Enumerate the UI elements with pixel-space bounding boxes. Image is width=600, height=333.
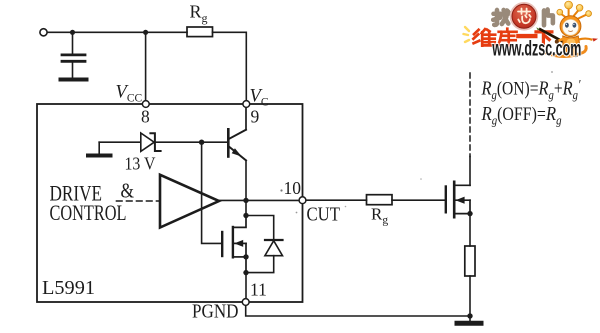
svg-text:Rg: Rg xyxy=(190,2,208,26)
wire to pin 11 xyxy=(245,273,247,298)
logo swoosh xyxy=(545,47,586,57)
logo mascot xyxy=(555,1,598,57)
wire gate drop xyxy=(202,142,221,243)
wire output to pin 10 xyxy=(219,199,298,201)
logo glow xyxy=(464,27,470,42)
node bottom junction xyxy=(467,313,472,318)
wire to diode branch xyxy=(245,200,247,215)
node base junction xyxy=(199,140,204,145)
svg-text:CONTROL: CONTROL xyxy=(50,200,127,225)
node M2 source junction xyxy=(467,211,472,216)
transistor Q1 npn xyxy=(228,108,246,160)
pin 8 xyxy=(142,101,149,108)
logo dzsc xyxy=(464,1,599,61)
resistor Rg top xyxy=(187,27,213,37)
wire resistor to rail xyxy=(469,276,471,316)
resistor R source xyxy=(465,246,475,276)
node source junction xyxy=(243,254,248,259)
wire Rg to Vc xyxy=(213,32,247,99)
logo magnifier xyxy=(511,3,537,29)
zener diode 13V xyxy=(141,133,161,151)
wire zener anode xyxy=(99,141,140,143)
svg-text:L5991: L5991 xyxy=(42,277,95,299)
svg-text:9: 9 xyxy=(251,107,260,127)
mosfet M2 power xyxy=(446,182,470,217)
svg-text:11: 11 xyxy=(250,280,267,300)
wire bottom rail xyxy=(246,306,470,316)
svg-text:Rg(OFF)=Rg: Rg(OFF)=Rg xyxy=(481,103,562,128)
wire zener to base xyxy=(155,141,227,143)
IC L5991 box xyxy=(37,104,303,302)
logo glyph pian xyxy=(544,10,553,26)
ground (capacitor) xyxy=(61,78,87,82)
wire drain dashed xyxy=(469,73,471,157)
pin 10 xyxy=(299,197,306,204)
svg-text:CUT: CUT xyxy=(307,204,341,226)
svg-text:Rg: Rg xyxy=(371,205,388,227)
wire cut to Rg xyxy=(307,199,367,201)
ground (zener) xyxy=(88,142,111,155)
pin 11 xyxy=(242,299,249,306)
svg-text:Rg(ON)=Rg+Rg′: Rg(ON)=Rg+Rg′ xyxy=(481,78,582,103)
node diode-bottom junction xyxy=(243,270,248,275)
svg-text:&: & xyxy=(121,179,135,203)
svg-text:PGND: PGND xyxy=(192,301,239,323)
wire dashed input xyxy=(117,200,160,202)
diode D1 internal xyxy=(246,216,283,273)
resistor Rg external xyxy=(367,195,393,205)
wire emitter drop xyxy=(245,160,247,200)
logo pen stick xyxy=(536,27,563,42)
buffer amplifier triangle xyxy=(160,175,219,228)
node capacitor junction xyxy=(70,30,75,35)
node Vcc junction xyxy=(143,30,148,35)
pin 9 xyxy=(243,101,250,108)
node output junction xyxy=(243,198,248,203)
svg-text:www.dzsc.com: www.dzsc.com xyxy=(492,38,582,61)
wire Vcc drop xyxy=(145,32,147,99)
svg-text:VCC: VCC xyxy=(116,83,143,105)
wire Rg to gate xyxy=(392,199,445,201)
mosfet M1 internal xyxy=(222,216,246,273)
wire drain solid xyxy=(469,157,471,186)
wire source to resistor xyxy=(469,214,471,246)
logo text weiku-yixia xyxy=(473,29,552,46)
svg-text:10: 10 xyxy=(284,178,302,198)
speck marks xyxy=(280,71,552,213)
svg-text:VC: VC xyxy=(250,87,269,109)
label DRIVE CONTROL xyxy=(50,181,127,226)
capacitor C1 xyxy=(62,32,85,77)
logo glyph zhao xyxy=(493,10,508,25)
ground (bottom right) xyxy=(457,316,481,323)
terminal input xyxy=(40,29,47,36)
wire top rail xyxy=(48,31,187,33)
svg-text:13 V: 13 V xyxy=(125,154,156,174)
node diode-top junction xyxy=(243,213,248,218)
svg-text:8: 8 xyxy=(141,107,150,127)
